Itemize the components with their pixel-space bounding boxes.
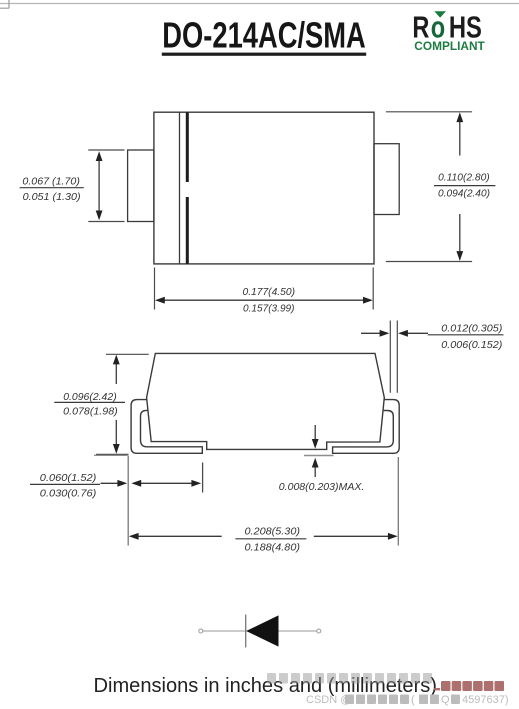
diode wire [202, 630, 318, 632]
body outline (top view) [154, 112, 374, 264]
diode triangle [246, 615, 278, 646]
dim 0.096/0.078 arrow line [115, 357, 117, 385]
svg-text:Q: Q [441, 694, 450, 706]
svg-text:R: R [412, 9, 429, 44]
right lead tab (top view) [374, 144, 399, 215]
svg-text:COMPLIANT: COMPLIANT [414, 41, 485, 53]
dim 0.096/0.078 extension lines [106, 353, 149, 355]
dim 0.177/0.157 extension lines [154, 268, 156, 310]
svg-text:0.094(2.40): 0.094(2.40) [438, 187, 490, 199]
dim 0.110/0.094 arrow line [459, 114, 461, 156]
corner artifact box [0, 0, 9, 8]
dim 0.060/0.030 extension line right [202, 463, 204, 493]
dim 0.060/0.030 outside arrow [101, 482, 125, 484]
svg-text:0.177(4.50): 0.177(4.50) [243, 286, 296, 298]
dim 0.012/0.006 extension lines [389, 321, 391, 393]
svg-text:0.030(0.76): 0.030(0.76) [40, 487, 97, 499]
dim 0.060/0.030 inner double arrow [134, 482, 199, 484]
svg-text:0.188(4.80): 0.188(4.80) [245, 542, 301, 554]
svg-text:0.096(2.42): 0.096(2.42) [63, 391, 116, 403]
svg-text:Dimensions in inches and (mill: Dimensions in inches and (millimeters) [94, 675, 438, 697]
body outline (side view) [147, 353, 385, 449]
dim 0.012/0.006 left arrow [361, 332, 386, 334]
svg-text:0.157(3.99): 0.157(3.99) [243, 303, 295, 315]
dim 0.008 seat line [304, 455, 334, 457]
dim 0.208/0.188 extension line right [397, 457, 399, 546]
svg-text:0.208(5.30): 0.208(5.30) [245, 526, 301, 538]
svg-text:0.060(1.52): 0.060(1.52) [40, 472, 97, 484]
svg-text:DO-214AC/SMA: DO-214AC/SMA [162, 14, 365, 55]
title underline [162, 53, 366, 56]
dim 0.012/0.006 right arrow [402, 332, 429, 334]
dim 0.008 down arrow [314, 425, 316, 442]
watermark grey line 2 [306, 694, 509, 706]
dim 0.110/0.094 extension lines [386, 111, 472, 113]
svg-text:(: ( [411, 694, 415, 706]
svg-text:0.110(2.80): 0.110(2.80) [438, 171, 490, 183]
right J-lead (side view) [333, 400, 400, 454]
cathode band thin line [179, 112, 181, 264]
svg-text:0.067 (1.70): 0.067 (1.70) [22, 175, 79, 187]
cathode band thick line upper [186, 112, 189, 182]
svg-text:0.051 (1.30): 0.051 (1.30) [23, 191, 81, 203]
dim 0.008 up arrow [314, 465, 316, 477]
RoHS leaf triangle [434, 11, 446, 18]
page top hairline [0, 3, 519, 5]
diode left terminal circle [199, 629, 203, 633]
left lead tab (top view) [128, 150, 154, 222]
svg-text:0.012(0.305): 0.012(0.305) [441, 322, 502, 334]
dim 0.060/0.030 extension line left [127, 456, 129, 546]
dim 0.177/0.157 arrow line [157, 299, 371, 301]
RoHS logo [412, 9, 482, 44]
svg-text:CSDN @: CSDN @ [306, 694, 351, 706]
diode right terminal circle [317, 629, 321, 633]
watermark red brand [434, 681, 504, 691]
svg-text:0.006(0.152): 0.006(0.152) [441, 339, 502, 351]
dim 0.067/0.051 arrow line [98, 154, 100, 218]
dim 0.067/0.051 extension lines [88, 149, 124, 151]
watermark grey jumble line 1 [267, 673, 432, 684]
svg-text:0.008(0.203)MAX.: 0.008(0.203)MAX. [279, 481, 365, 493]
svg-text:4597637): 4597637) [462, 694, 509, 706]
left J-lead (side view) [131, 400, 202, 454]
dim 0.060/0.030 seat extension [94, 454, 128, 456]
cathode band thick line lower [186, 197, 189, 264]
diode cathode bar [245, 615, 247, 648]
svg-text:HS: HS [449, 9, 482, 44]
dim 0.208/0.188 arrow line [132, 535, 222, 537]
svg-text:0.078(1.98): 0.078(1.98) [63, 405, 117, 417]
